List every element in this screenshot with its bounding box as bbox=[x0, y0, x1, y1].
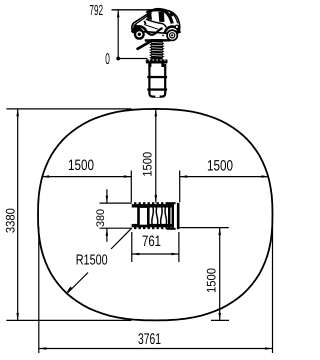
extension line 3761 left bbox=[38, 227, 40, 353]
car rear seat blob bbox=[147, 14, 152, 20]
anchor bottom gap bbox=[155, 95, 159, 97]
rear fender arc bbox=[132, 26, 146, 32]
element top bar bbox=[132, 204, 173, 207]
spring coil front view bbox=[149, 39, 165, 59]
arrow br1500 bottom bbox=[218, 313, 221, 321]
svg-text:761: 761 bbox=[142, 233, 161, 250]
arrow right1500 right bbox=[262, 175, 270, 178]
arrow 761 right bbox=[171, 253, 179, 256]
svg-text:1500: 1500 bbox=[207, 158, 233, 175]
extension line 380 top bbox=[100, 202, 132, 204]
leader R1500 upper segment bbox=[111, 228, 132, 249]
rear wheel bbox=[134, 29, 145, 40]
car door crease bbox=[144, 25, 158, 30]
svg-text:380: 380 bbox=[95, 209, 107, 227]
base bar bbox=[145, 39, 170, 42]
dimension line 792 vertical bbox=[117, 10, 119, 59]
car headlight bbox=[175, 25, 178, 28]
element middle wavy lines bbox=[152, 206, 167, 228]
car roof band bbox=[147, 10, 167, 13]
car center seat blob bbox=[159, 12, 165, 22]
arrow 792 top bbox=[117, 10, 120, 17]
arrow br1500 top bbox=[218, 228, 221, 236]
arrow 3761 right bbox=[265, 347, 273, 350]
extension line 761 right bbox=[178, 232, 180, 262]
dimension line 380 top tail bbox=[106, 189, 108, 203]
dimension line left 1500 bbox=[42, 176, 132, 178]
safety zone outline bbox=[38, 109, 273, 321]
car door rear edge bbox=[144, 21, 145, 24]
extension tick bottom-right 1500 bottom bbox=[211, 319, 229, 321]
element coil bumps bottom bbox=[134, 227, 168, 229]
dimension line 3380 bbox=[17, 109, 19, 321]
element end bar bbox=[177, 203, 180, 229]
svg-text:0: 0 bbox=[105, 51, 110, 68]
car rear fender mass bbox=[133, 24, 143, 32]
svg-text:1500: 1500 bbox=[68, 157, 94, 174]
arrow left1500 left bbox=[42, 175, 50, 178]
element bottom bar bbox=[132, 224, 173, 227]
svg-text:R1500: R1500 bbox=[76, 252, 108, 268]
arrow 3761 left bbox=[39, 347, 47, 350]
extension line bottom-right 1500 top bbox=[180, 227, 229, 229]
element coil bumps top bbox=[134, 202, 168, 204]
car windshield outer edge bbox=[168, 11, 178, 24]
arrow 380 bottom bbox=[106, 228, 109, 235]
extension line 3761 right bbox=[272, 227, 274, 353]
svg-text:792: 792 bbox=[89, 3, 103, 19]
arrow R1500 bbox=[66, 287, 72, 293]
dimension line bottom-right 1500 bbox=[219, 228, 221, 321]
front fender arc bbox=[165, 27, 180, 34]
ground line bbox=[118, 58, 147, 60]
car mirror bbox=[170, 13, 173, 16]
arrow 3380 top bbox=[16, 109, 19, 117]
svg-text:3761: 3761 bbox=[138, 331, 161, 348]
extension line left 1500 bbox=[130, 171, 132, 203]
foot strut bbox=[138, 41, 152, 49]
car window sill line bbox=[146, 19, 167, 27]
rider element plan view bbox=[132, 202, 179, 230]
extension line 380 bottom bbox=[100, 227, 132, 229]
svg-text:3380: 3380 bbox=[3, 208, 17, 233]
car front bumper mass bbox=[175, 30, 180, 33]
svg-text:1500: 1500 bbox=[140, 152, 154, 177]
anchor crossbar 1 bbox=[147, 76, 167, 78]
arrow right1500 left bbox=[180, 175, 188, 178]
extension line right 1500 bbox=[179, 171, 181, 203]
car door dot bbox=[162, 35, 164, 37]
base plate bbox=[146, 59, 168, 63]
car rocker scoop curve bbox=[146, 28, 163, 35]
arrow center1500 top bbox=[155, 109, 158, 117]
dimension line center 1500 vertical bbox=[155, 109, 157, 203]
extension line 3380 bottom bbox=[6, 319, 131, 321]
arrow center1500 bottom bbox=[155, 195, 158, 203]
car body outline bbox=[132, 9, 180, 34]
arrow left1500 right bbox=[124, 175, 132, 178]
dimension line 792 top extension bbox=[112, 9, 153, 11]
ground anchor bbox=[149, 64, 165, 97]
dimension line 761 bbox=[132, 253, 179, 255]
element right I-bar bbox=[169, 203, 173, 230]
svg-text:1500: 1500 bbox=[204, 268, 218, 293]
dimension line 380 bottom tail bbox=[106, 228, 108, 241]
leader R1500 lower segment bbox=[68, 273, 89, 294]
dimension line right 1500 bbox=[180, 176, 269, 178]
datum dot 0 bbox=[116, 57, 120, 61]
arrow 380 top bbox=[106, 196, 109, 203]
front wheel bbox=[166, 29, 178, 41]
element left box bbox=[139, 207, 149, 226]
extension line 3380 top bbox=[6, 108, 131, 110]
anchor legs bbox=[148, 64, 151, 68]
car A-pillar bbox=[165, 12, 172, 24]
dimension line 3761 bbox=[39, 348, 273, 350]
arrow 761 left bbox=[132, 253, 140, 256]
anchor crossbar 2 bbox=[147, 88, 167, 90]
car rear window inner line bbox=[135, 13, 152, 25]
arrow 3380 bottom bbox=[16, 313, 19, 321]
extension line 761 left bbox=[131, 232, 133, 262]
